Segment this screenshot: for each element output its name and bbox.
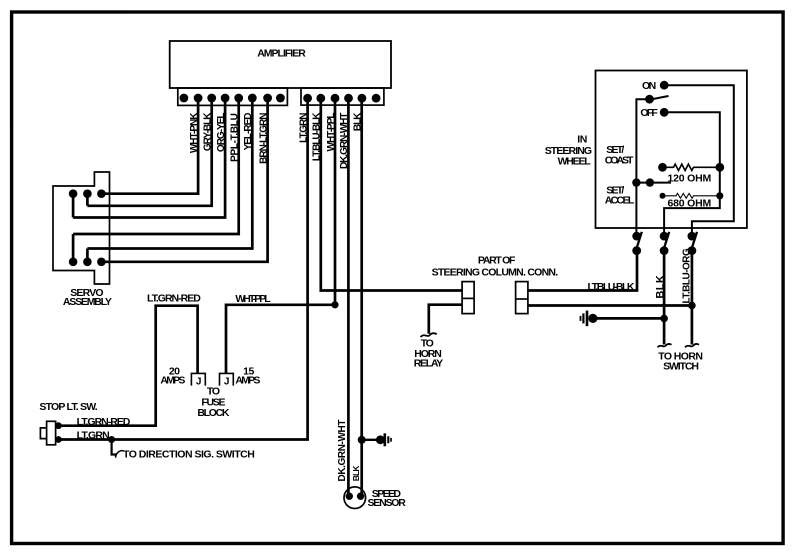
wire BRN-LT.GRN — [101, 98, 267, 262]
svg-text:AMPS: AMPS — [160, 374, 185, 386]
wire BLK to ground G2 — [362, 439, 379, 441]
svg-text:BLK: BLK — [353, 112, 364, 131]
wire LT.GRN-RED — [58, 306, 197, 426]
amplifier left pins — [180, 94, 285, 103]
label SET/ACCEL — [605, 185, 635, 207]
svg-text:STEERING COLUMN. CONN.: STEERING COLUMN. CONN. — [432, 266, 559, 278]
wire LT.BLU-BLK — [321, 98, 462, 291]
label IN STEERING WHEEL — [545, 133, 592, 167]
amplifier left connector strip — [178, 88, 288, 105]
wire BLK to horn switch — [663, 251, 666, 345]
stop light switch terminals — [55, 422, 62, 429]
svg-text:WHT-PPL: WHT-PPL — [235, 293, 271, 305]
svg-text:LT.GRN-RED: LT.GRN-RED — [77, 416, 131, 428]
svg-text:LT.GRN: LT.GRN — [77, 429, 110, 441]
wire BLK — [360, 98, 363, 496]
svg-text:WHT-PPL: WHT-PPL — [326, 113, 337, 152]
svg-text:BRN-LT.GRN: BRN-LT.GRN — [258, 113, 269, 164]
speed sensor — [344, 487, 406, 509]
continuation squiggle — [116, 451, 124, 457]
amplifier right connector strip — [301, 88, 384, 105]
svg-text:GRY-BLK: GRY-BLK — [203, 112, 214, 151]
resistor R1 120 OHM — [658, 163, 724, 185]
node switch pole — [645, 95, 654, 104]
wire column connector to LT.BLU-ORG — [528, 304, 692, 307]
wire ground to BLK — [593, 317, 664, 320]
label PART OF STEERING COLUMN. CONN. — [432, 254, 559, 278]
steering wheel box — [596, 71, 747, 229]
steering column connector right half — [516, 282, 528, 314]
svg-text:BLK: BLK — [655, 275, 667, 299]
node WHT-PPL junction — [331, 301, 338, 308]
wire SET/ACCEL stub — [636, 182, 671, 184]
wire LT.GRN — [58, 98, 307, 440]
wire to direction signal switch — [112, 440, 117, 455]
continuation squiggle horn relay — [421, 333, 437, 337]
svg-text:STOP LT. SW.: STOP LT. SW. — [39, 401, 97, 413]
node LT.BLU-ORG junction — [688, 302, 696, 310]
node OFF contact — [660, 108, 669, 117]
svg-text:LT.BLU-ORG: LT.BLU-ORG — [681, 248, 692, 304]
svg-text:BLK: BLK — [351, 465, 361, 482]
label TO HORN SWITCH — [658, 351, 702, 373]
svg-text:IN: IN — [577, 133, 587, 145]
node direction signal junction — [108, 436, 115, 443]
svg-text:J: J — [196, 376, 201, 387]
svg-text:COAST: COAST — [605, 155, 634, 167]
svg-text:DK.GRN-WHT: DK.GRN-WHT — [339, 113, 350, 169]
svg-text:680 OHM: 680 OHM — [668, 198, 712, 210]
svg-text:TO DIRECTION SIG. SWITCH: TO DIRECTION SIG. SWITCH — [123, 449, 254, 461]
amplifier right pins — [303, 94, 380, 103]
switch pole arm — [651, 96, 669, 99]
continuation squiggle LT.BLU-ORG — [685, 344, 699, 347]
svg-text:LT.BLU-BLK: LT.BLU-BLK — [588, 281, 635, 293]
svg-text:LT.BLU-BLK: LT.BLU-BLK — [312, 112, 323, 161]
svg-text:WHT-PNK: WHT-PNK — [189, 112, 200, 153]
svg-text:OFF: OFF — [640, 107, 658, 119]
svg-text:AMPS: AMPS — [235, 374, 260, 386]
node SET/ACCEL junction b — [646, 178, 654, 186]
wire LT.BLU-BLK column connector to switch — [528, 251, 637, 291]
svg-text:J: J — [224, 376, 229, 387]
node BLK ground junction 2 — [358, 436, 366, 444]
svg-text:ASSEMBLY: ASSEMBLY — [63, 296, 112, 308]
amplifier U1 box — [170, 41, 391, 88]
svg-text:SWITCH: SWITCH — [663, 361, 698, 373]
resistor R2 680 OHM — [660, 192, 724, 209]
continuation squiggle BLK — [658, 344, 672, 347]
servo assembly connector — [53, 172, 112, 308]
ground chassis G2 — [376, 433, 391, 446]
node ON contact — [660, 81, 669, 90]
servo pins — [69, 189, 106, 266]
wire WHT-PPL to fuse — [226, 305, 335, 374]
wire OFF to resistors to switch 2 — [664, 112, 720, 236]
svg-text:AMPLIFIER: AMPLIFIER — [257, 48, 306, 60]
label TO HORN RELAY — [414, 338, 443, 370]
fuse F1 20 AMPS — [160, 365, 205, 387]
wire ON to switch 3 — [664, 85, 734, 236]
switch SW3 — [688, 232, 698, 255]
svg-text:YEL-RED: YEL-RED — [243, 113, 254, 151]
svg-text:WHEEL: WHEEL — [558, 156, 592, 168]
svg-text:ORG-YEL: ORG-YEL — [216, 113, 227, 152]
svg-text:RELAY: RELAY — [414, 358, 443, 370]
steering column connector left half — [462, 282, 474, 314]
fuse F2 15 AMPS — [220, 365, 261, 387]
node SET/ACCEL junction a — [632, 178, 640, 186]
stop light switch S1 — [39, 401, 97, 445]
wire LT.BLU-ORG to horn switch — [691, 251, 694, 345]
ground chassis G1 — [581, 311, 598, 327]
switch SW1 — [632, 232, 642, 255]
svg-text:PPL-T.BLU: PPL-T.BLU — [230, 113, 241, 161]
wire WHT-PNK — [101, 98, 198, 194]
svg-text:PART OF: PART OF — [478, 254, 516, 266]
svg-text:LT.GRN: LT.GRN — [298, 113, 309, 143]
wire ORG-YEL — [73, 98, 225, 218]
wire PPL-T.BLU — [73, 98, 239, 262]
svg-text:DK.GRN-WHT: DK.GRN-WHT — [337, 420, 348, 482]
label TO FUSE BLOCK — [197, 385, 230, 419]
wire pole to switch 1 — [636, 99, 649, 236]
wire GRY-BLK — [87, 98, 211, 206]
svg-text:ON: ON — [642, 80, 656, 92]
wire WHT-PPL — [334, 98, 337, 305]
svg-text:LT.GRN-RED: LT.GRN-RED — [147, 293, 201, 305]
switch SW2 — [660, 232, 670, 255]
svg-text:BLOCK: BLOCK — [197, 407, 230, 419]
label SET/COAST — [605, 144, 634, 167]
wire to horn relay — [429, 305, 462, 334]
wire DK.GRN-WHT — [347, 98, 350, 496]
svg-text:SENSOR: SENSOR — [368, 497, 407, 509]
svg-text:ACCEL: ACCEL — [605, 195, 635, 207]
wire YEL-RED — [87, 98, 252, 262]
svg-text:120 OHM: 120 OHM — [668, 173, 712, 185]
node BLK ground junction — [660, 315, 668, 323]
